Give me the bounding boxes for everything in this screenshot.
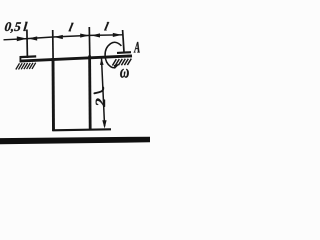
bottom bar of frame / extension line: [52, 129, 111, 130]
arrowhead 2l pointing up at beam: [100, 58, 104, 65]
bearing plate at A: [117, 51, 131, 54]
arrowhead of omega rotation arc: [114, 64, 120, 69]
value label l (second span): [104, 22, 109, 30]
arrowhead pointing right at axis A: [113, 33, 122, 37]
node label A: [134, 42, 140, 53]
beam (horizontal bar to A): [20, 56, 132, 61]
dimension arrowheads: [17, 33, 122, 129]
arrowhead pointing left at tick x=89.5: [91, 33, 100, 37]
arrowhead 2l pointing down at bottom bar: [102, 120, 106, 128]
extension line / rotation axis at A: [123, 30, 124, 52]
left vertical rod of frame: [52, 58, 55, 131]
extension line / support axis x=27: [26, 30, 29, 59]
extension line above right rod x=89.5: [88, 27, 91, 57]
hatching of left bearing support: [16, 63, 36, 70]
left bearing support top jaw: [20, 55, 37, 58]
hatching of bearing at A: [112, 59, 131, 66]
value label 0,5 l: [4, 22, 27, 33]
omega rotation arc around axis A: [105, 42, 121, 67]
mask overlong comma tail: [9, 33, 14, 36]
extension line above left rod x=53: [52, 30, 54, 60]
paper background: [0, 0, 150, 150]
left bearing support clevis: [19, 56, 21, 62]
value label 2l rotated, digit 2: [96, 98, 105, 106]
dimension line 2l (vertical): [102, 58, 105, 126]
label omega (angular velocity): [120, 69, 129, 78]
arrowhead 0,5l pointing right at tick x=27: [17, 36, 27, 41]
arrowhead pointing left at tick x=53: [54, 35, 63, 39]
right vertical rod of frame: [88, 56, 91, 131]
arrowhead pointing right at tick x=89.5: [80, 34, 89, 38]
dimension line (top, 0,5l / l / l): [4, 35, 123, 40]
value label 2l rotated, letter l: [94, 88, 103, 94]
printed black rule at page bottom: [0, 137, 150, 145]
arrowhead pointing left at tick x=27: [28, 36, 37, 40]
value label l (first span): [69, 23, 74, 31]
